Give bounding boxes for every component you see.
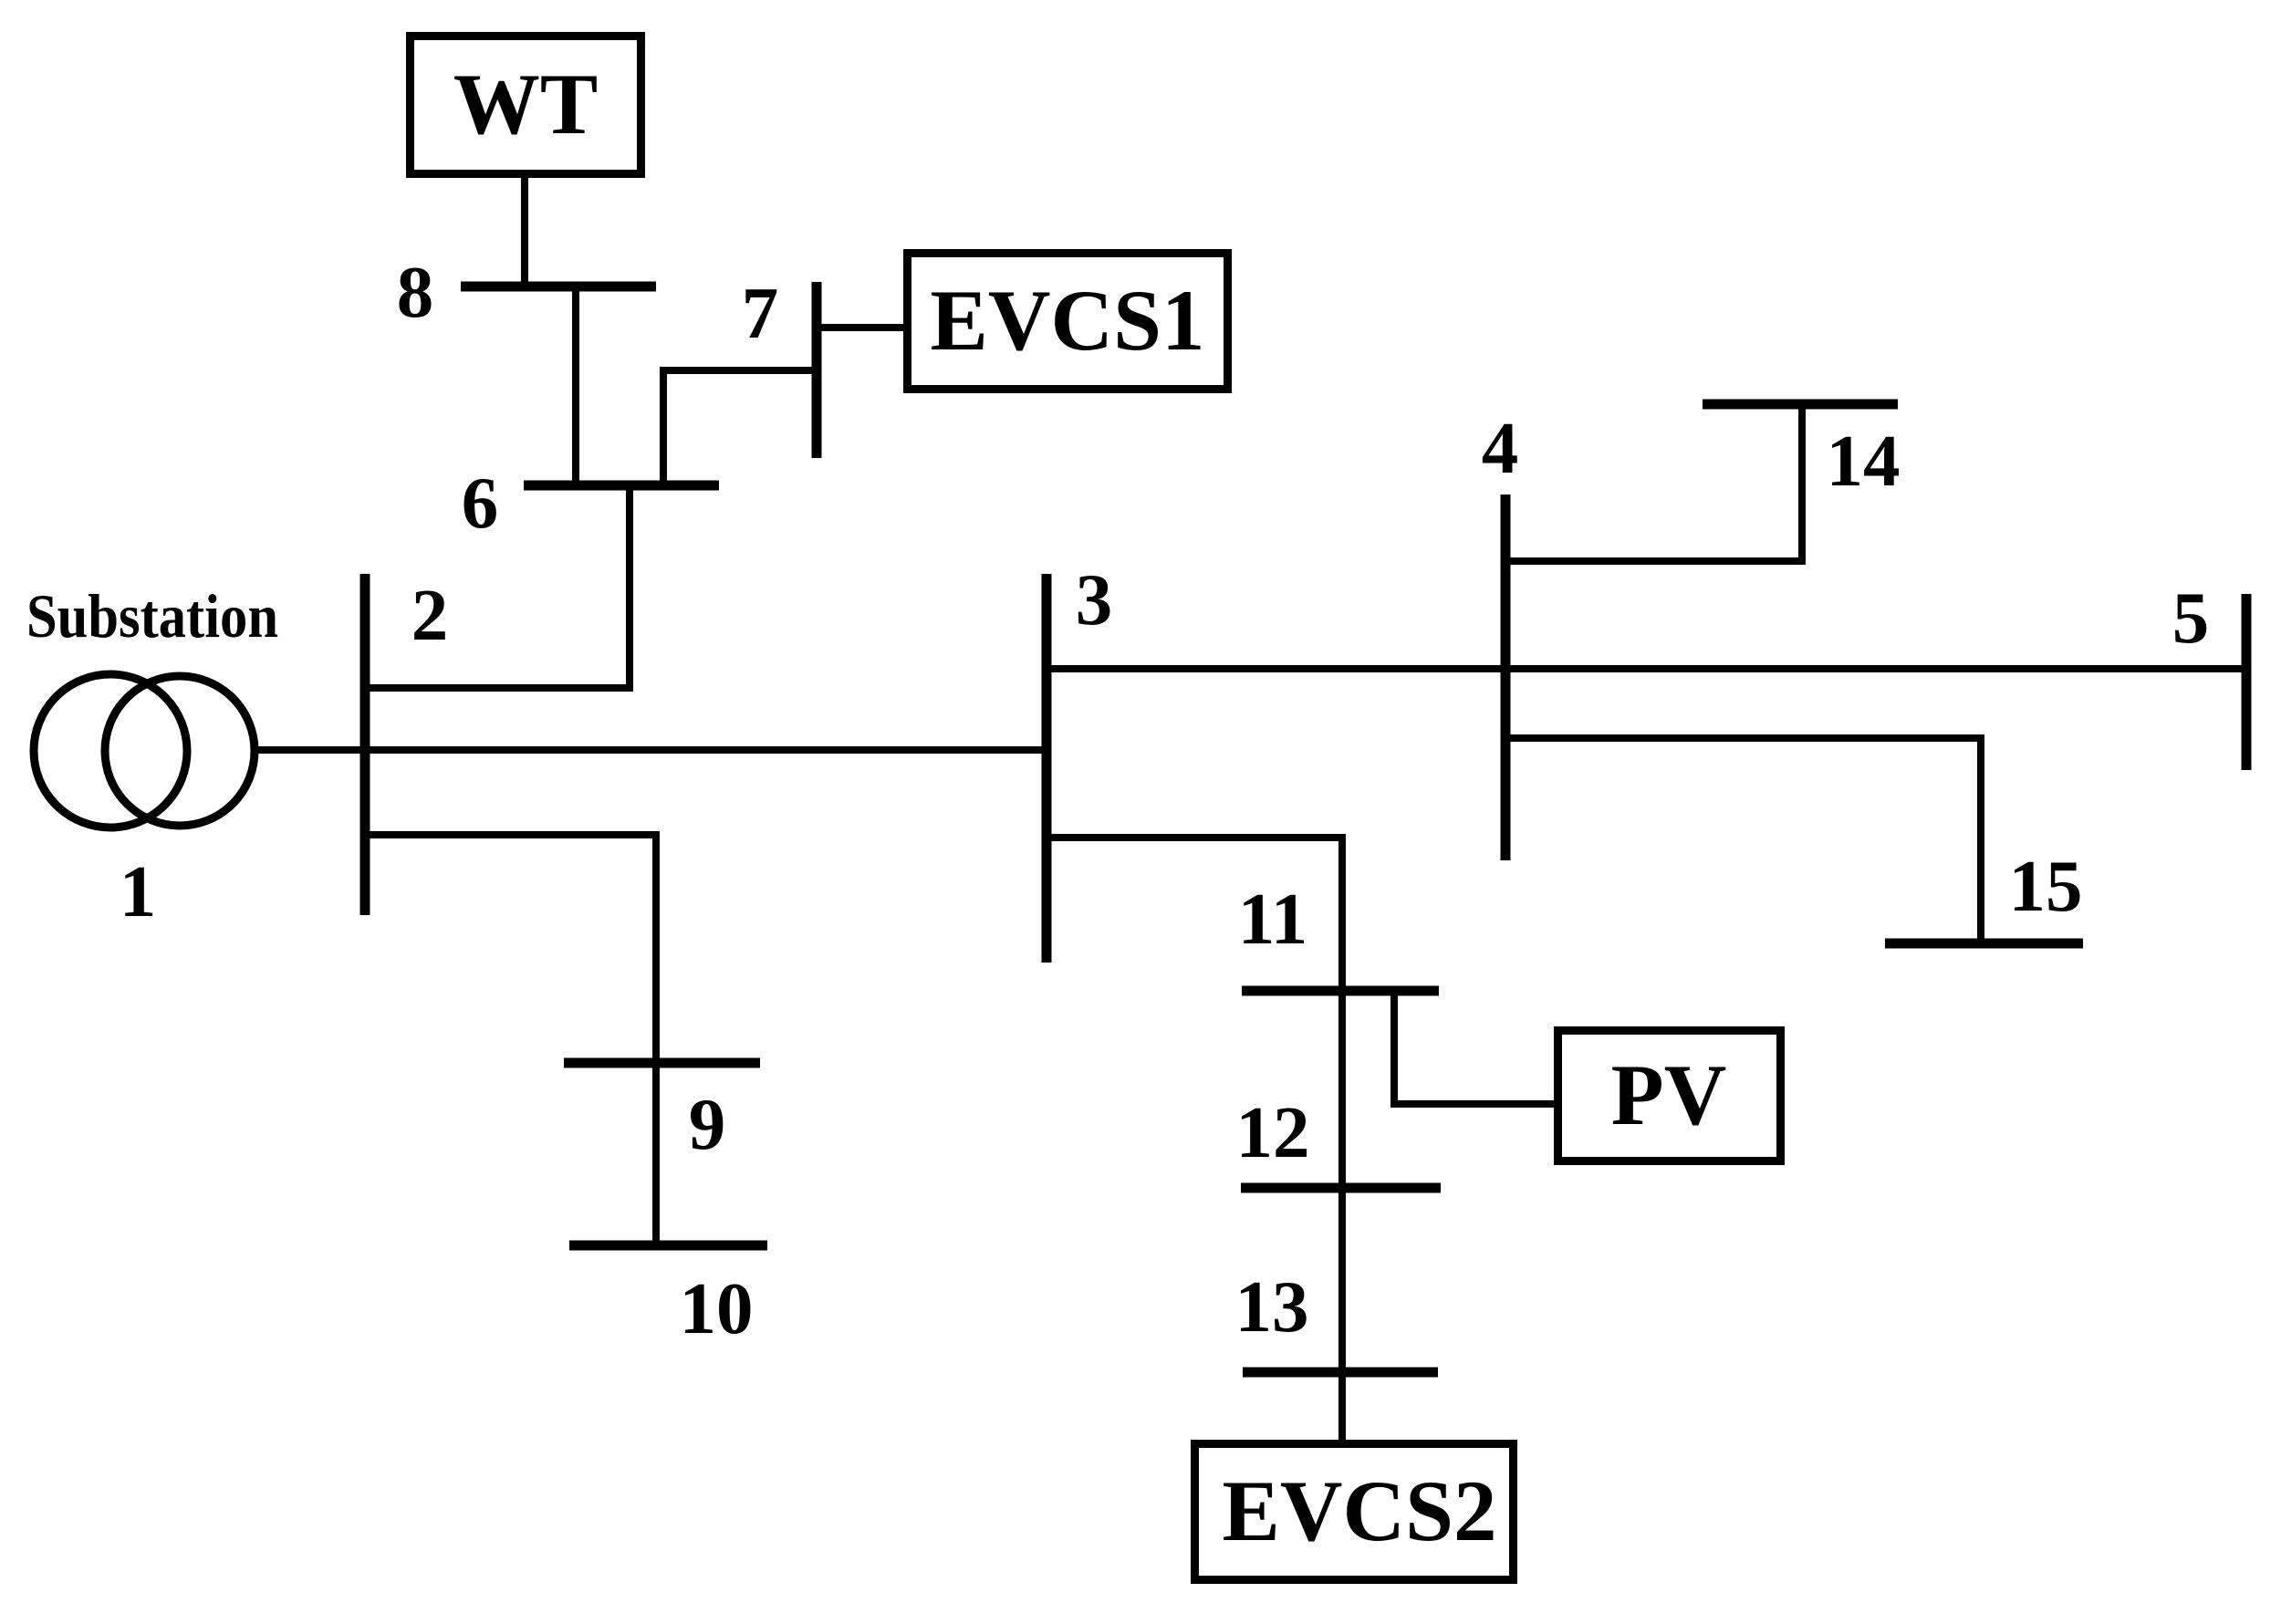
svg-text:EVCS1: EVCS1 bbox=[931, 272, 1205, 369]
svg-text:15: 15 bbox=[2009, 845, 2083, 927]
svg-text:14: 14 bbox=[1827, 420, 1901, 502]
svg-text:10: 10 bbox=[680, 1267, 754, 1349]
svg-text:7: 7 bbox=[742, 272, 779, 354]
svg-text:1: 1 bbox=[120, 850, 157, 932]
svg-text:4: 4 bbox=[1482, 407, 1519, 489]
svg-text:11: 11 bbox=[1238, 878, 1308, 960]
svg-text:9: 9 bbox=[689, 1083, 726, 1165]
svg-text:PV: PV bbox=[1611, 1046, 1727, 1143]
svg-text:8: 8 bbox=[397, 251, 434, 333]
svg-text:12: 12 bbox=[1236, 1091, 1310, 1173]
svg-text:2: 2 bbox=[411, 574, 449, 656]
svg-text:EVCS2: EVCS2 bbox=[1223, 1463, 1497, 1559]
svg-text:3: 3 bbox=[1076, 558, 1113, 640]
svg-text:WT: WT bbox=[453, 56, 598, 152]
svg-text:6: 6 bbox=[462, 462, 499, 544]
svg-text:Substation: Substation bbox=[26, 581, 278, 651]
svg-text:5: 5 bbox=[2172, 577, 2210, 659]
svg-text:13: 13 bbox=[1235, 1265, 1309, 1348]
